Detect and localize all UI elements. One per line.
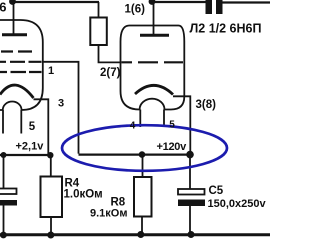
grid V2 dashed row xyxy=(122,61,184,63)
svg-text:Л2 1/2 6Н6П: Л2 1/2 6Н6П xyxy=(190,22,262,36)
wire C5 top lead xyxy=(189,155,191,189)
wire plate lead V1 xyxy=(13,2,15,34)
wire bypass cap top lead xyxy=(3,155,5,189)
heater V2 leads (pins 4,5) xyxy=(140,110,164,128)
svg-text:+2,1v: +2,1v xyxy=(16,141,45,153)
svg-text:6: 6 xyxy=(0,0,6,15)
anode plate bar V1 xyxy=(2,33,27,36)
cathode arc V1 xyxy=(0,85,34,98)
wire plate lead V2 xyxy=(153,2,155,34)
wire R4 top lead xyxy=(50,155,52,177)
wire R4 bottom lead xyxy=(50,217,52,234)
anode plate bar V2 xyxy=(140,34,169,37)
wire C5 bottom lead xyxy=(189,206,191,234)
wire R8 bottom lead xyxy=(141,217,143,235)
tube envelope V1 (left, partly off-canvas) xyxy=(0,20,43,110)
svg-text:4: 4 xyxy=(130,121,136,132)
grid g3 V1 dashed row xyxy=(0,71,42,73)
svg-text:C5: C5 xyxy=(209,185,224,197)
svg-text:1.0кОм: 1.0кОм xyxy=(64,188,103,200)
wire top rail left (plate of V1 to grid resistor) xyxy=(11,1,99,3)
svg-text:9.1кОм: 9.1кОм xyxy=(90,208,128,220)
node junction dot above V2 xyxy=(149,0,156,5)
coupling capacitor plate 2 xyxy=(216,0,223,14)
grid g1 V1 dashed row xyxy=(1,50,32,52)
node junction dot top-left xyxy=(9,0,16,5)
node dot +2.1v cap xyxy=(1,152,7,158)
svg-text:2(7): 2(7) xyxy=(100,67,121,79)
wire cathode V2 (pin 3(8)) to +120v xyxy=(173,96,190,153)
svg-text:5: 5 xyxy=(29,121,36,133)
+120v rail xyxy=(79,154,191,156)
node dot gnd R8 xyxy=(137,231,144,238)
+2.1v rail xyxy=(0,154,52,156)
svg-text:3: 3 xyxy=(58,98,64,110)
node dot +120v R8 xyxy=(139,151,146,158)
highlight ellipse (blue) xyxy=(62,125,227,171)
wire R8 top lead xyxy=(142,155,144,177)
svg-text:3(8): 3(8) xyxy=(196,99,217,111)
resistor grid-stopper body (top middle) xyxy=(90,18,107,46)
capacitor C5 bottom plate xyxy=(178,200,205,207)
coupling capacitor plate 1 (top right, clipped) xyxy=(206,0,213,14)
capacitor C5 top plate xyxy=(178,189,205,195)
svg-text:+120v: +120v xyxy=(157,141,188,153)
svg-text:1: 1 xyxy=(48,65,54,77)
node dot gnd R4 xyxy=(47,232,54,239)
capacitor (bypass, cut at left) top plate xyxy=(0,189,17,195)
heater V2 arch xyxy=(140,99,165,110)
ground bus rail xyxy=(0,233,270,236)
capacitor (bypass) bottom plate xyxy=(0,200,17,206)
svg-text:5: 5 xyxy=(169,120,175,131)
resistor R4 body xyxy=(41,177,63,218)
heater V1 leads xyxy=(3,110,21,134)
node dot gnd cap xyxy=(0,232,7,239)
grid g2 V1 dashed row xyxy=(0,61,42,63)
node dot +2.1v R4 xyxy=(47,152,53,158)
cathode arc V2 xyxy=(135,85,173,94)
node dot gnd C5 xyxy=(188,231,195,238)
svg-text:1(6): 1(6) xyxy=(125,4,146,16)
heater V1 arch xyxy=(3,102,22,111)
node dot +120v C5 xyxy=(186,151,194,159)
wire top rail right to coupling cap xyxy=(152,1,206,3)
wire grid-stopper top lead xyxy=(98,2,100,18)
wire grid-stopper bottom lead to grid V2 xyxy=(99,45,122,62)
wire bypass cap bottom lead xyxy=(3,206,5,235)
svg-text:R8: R8 xyxy=(111,196,126,208)
svg-text:150,0x250v: 150,0x250v xyxy=(208,198,267,210)
wire pin3 cathode V1 down xyxy=(34,99,49,155)
resistor R8 body xyxy=(134,177,152,217)
wire pin1 (g2) to +120v rail xyxy=(43,62,79,154)
tube envelope V2 xyxy=(121,26,185,110)
wire output right xyxy=(223,1,271,3)
